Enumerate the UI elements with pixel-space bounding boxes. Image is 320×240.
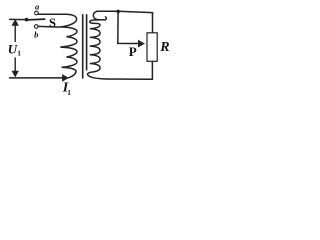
node junction dot	[116, 10, 120, 14]
transformer core bar left	[82, 15, 84, 78]
arrow P slider head	[138, 40, 144, 47]
svg-text:U: U	[8, 42, 18, 57]
switch S lever	[28, 18, 45, 21]
svg-text:S: S	[49, 16, 56, 30]
arrow U1 down	[14, 58, 16, 71]
arrow I1 head	[62, 75, 68, 82]
switch contact b	[34, 25, 38, 29]
svg-text:R: R	[159, 40, 169, 55]
resistor R body	[147, 33, 157, 62]
wire R bottom stub	[151, 61, 153, 79]
switch pole junction	[25, 18, 29, 22]
svg-text:1: 1	[67, 88, 71, 97]
wire contact a to primary top	[38, 13, 64, 15]
wire slider branch	[118, 13, 139, 44]
transformer core bar right	[86, 15, 88, 70]
wire R top stub	[152, 13, 154, 33]
transformer primary winding L1	[60, 14, 77, 78]
wire secondary bottom	[107, 78, 152, 80]
svg-text:1: 1	[17, 49, 21, 57]
svg-text:P: P	[129, 44, 137, 59]
switch contact a	[35, 11, 39, 15]
wire source bottom with I1 direction	[10, 77, 63, 79]
arrow U1 up	[14, 25, 16, 41]
svg-text:b: b	[34, 30, 38, 40]
transformer secondary winding L2	[93, 11, 106, 20]
wire source top	[10, 18, 25, 20]
svg-text:a: a	[35, 2, 40, 12]
wire secondary top to R branch	[97, 11, 153, 12]
wire contact b to primary tap	[38, 25, 60, 28]
